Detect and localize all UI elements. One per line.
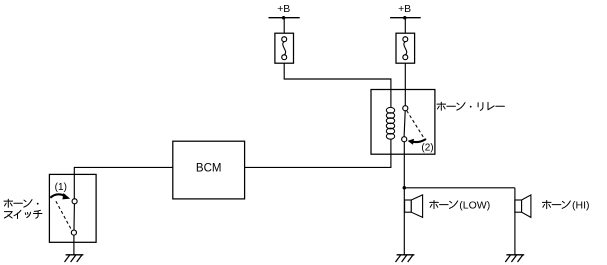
power +B label (left): [277, 4, 290, 15]
power +B bus bar (right): [390, 17, 421, 19]
switch arm (solid): [73, 204, 75, 230]
wire: horn switch to BCM input: [74, 167, 173, 198]
switch pin label (1): [55, 182, 67, 193]
switch fixed terminal (top): [72, 199, 77, 204]
horn switch box: [49, 174, 96, 242]
power +B bus bar (left): [269, 17, 300, 19]
relay contact fixed terminal (top): [403, 106, 408, 111]
svg-text:(HI): (HI): [572, 199, 590, 211]
BCM label: [196, 163, 222, 175]
svg-text:+B: +B: [398, 4, 411, 15]
fuse F2 (right +B fuse): [396, 33, 415, 63]
label: horn relay (katakana): [437, 102, 504, 110]
switch moving terminal (bottom): [71, 230, 76, 235]
BCM box: [173, 141, 245, 199]
wire: fuse F1 to relay coil (down, right, down): [284, 63, 391, 107]
relay contact arm (closed, solid): [404, 111, 405, 137]
wire: junction to horn HI: [404, 187, 515, 189]
svg-text:BCM: BCM: [196, 163, 222, 175]
wire: +B bar to fuse F1: [283, 18, 285, 34]
power +B label (right): [398, 4, 411, 15]
junction dot at horn feed node: [403, 186, 407, 190]
ground (horn switch): [65, 255, 84, 262]
horn HI speaker symbol: [515, 195, 531, 218]
wire: relay contact to horn junction: [403, 142, 405, 188]
junction dot on +B bar (right): [403, 16, 407, 20]
wire: coil bottom to BCM output: [245, 140, 391, 168]
ground (horn LOW): [396, 255, 415, 262]
fuse F1 (left +B fuse): [275, 33, 294, 63]
ground (horn HI): [505, 255, 524, 262]
switch actuation arrow: [50, 193, 70, 199]
label: horn HI: [542, 199, 589, 211]
horn relay box: [371, 90, 435, 155]
label: horn LOW: [430, 199, 491, 211]
svg-text:(2): (2): [421, 143, 433, 154]
wire: horn HI drop to ground: [514, 188, 516, 255]
wire: +B bar to fuse F2: [404, 18, 406, 34]
relay pin label (2): [421, 143, 433, 154]
wire: switch to ground: [73, 235, 75, 255]
switch open position (dashed): [56, 201, 72, 230]
relay coil L1: [386, 107, 394, 139]
horn LOW speaker symbol: [405, 195, 423, 218]
relay actuation arrow: [408, 139, 426, 145]
relay contact moving terminal (bottom): [402, 137, 407, 142]
relay contact open position (dashed): [407, 111, 424, 137]
svg-text:(1): (1): [55, 182, 67, 193]
svg-text:+B: +B: [277, 4, 290, 15]
svg-text:(LOW): (LOW): [459, 199, 490, 211]
wire: junction to horn LOW / ground: [403, 188, 405, 255]
wire: fuse F2 to relay contact: [404, 63, 406, 105]
junction dot on +B bar (left): [282, 16, 286, 20]
label: horn switch (katakana, 2 lines): [4, 199, 42, 218]
